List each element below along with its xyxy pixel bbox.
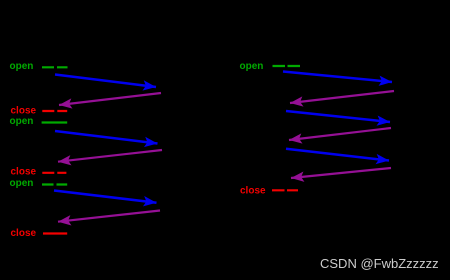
arrow purple L1 [59, 93, 161, 105]
arrow blue R2 [286, 111, 390, 122]
tick open 1 (left) [42, 66, 68, 68]
tick open (right) [273, 65, 301, 67]
arrow purple R3 [291, 168, 391, 178]
arrow blue R1 [283, 72, 392, 83]
tick close (right) [272, 189, 298, 191]
arrow blue L1 [55, 75, 156, 88]
tick close 1 (left) [42, 110, 67, 112]
arrow purple R2 [289, 128, 391, 140]
tick open 3 (left) [42, 183, 67, 185]
arrow blue L3 [54, 191, 157, 203]
arrow purple R1 [290, 91, 394, 103]
svg-text:open: open [10, 61, 34, 72]
svg-text:close: close [11, 106, 37, 117]
svg-text:open: open [10, 178, 34, 189]
arrow purple L2 [58, 150, 162, 162]
svg-text:open: open [240, 61, 264, 72]
tick close 2 (left) [42, 172, 66, 174]
arrow purple L3 [58, 211, 160, 222]
arrow blue L2 [55, 131, 158, 144]
svg-text:close: close [240, 185, 266, 196]
tick close 3 (left) [43, 232, 67, 234]
svg-text:CSDN @FwbZzzzzz: CSDN @FwbZzzzzz [320, 256, 439, 271]
arrow blue R3 [286, 149, 389, 161]
svg-text:close: close [11, 167, 37, 178]
svg-text:open: open [10, 116, 34, 127]
svg-text:close: close [11, 228, 37, 239]
tick open 2 (left) [42, 121, 68, 123]
